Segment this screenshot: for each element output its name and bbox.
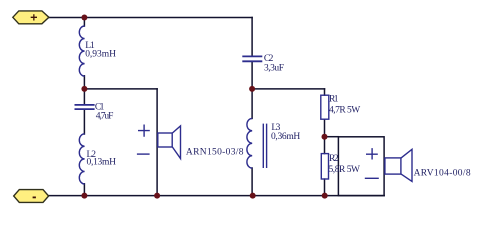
svg-text:0,93mH: 0,93mH [85,50,116,60]
svg-text:R1: R1 [329,95,339,105]
svg-text:0,36mH: 0,36mH [271,132,300,142]
svg-text:R2: R2 [329,154,339,164]
svg-text:5,8R 5W: 5,8R 5W [329,165,361,175]
svg-text:4,7R 5W: 4,7R 5W [329,105,360,115]
svg-text:0,13mH: 0,13mH [87,157,117,167]
svg-text:C2: C2 [264,54,274,64]
svg-text:ARN150-03/8: ARN150-03/8 [186,148,244,158]
svg-text:4,7uF: 4,7uF [96,112,114,122]
svg-text:ARV104-00/8: ARV104-00/8 [414,168,471,178]
svg-text:3,3uF: 3,3uF [264,64,284,74]
